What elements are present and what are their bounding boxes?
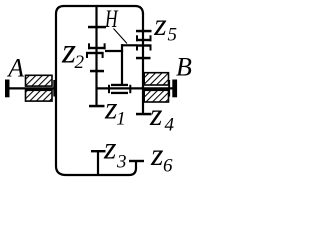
svg-text:z: z	[149, 96, 163, 132]
svg-text:5: 5	[168, 25, 178, 46]
svg-text:1: 1	[116, 109, 126, 130]
svg-text:B: B	[176, 53, 192, 82]
svg-text:z: z	[153, 6, 167, 42]
svg-text:H: H	[104, 5, 119, 33]
svg-text:2: 2	[75, 52, 85, 73]
svg-text:z: z	[103, 130, 117, 166]
svg-text:4: 4	[165, 115, 175, 136]
svg-text:A: A	[6, 53, 24, 82]
svg-text:6: 6	[163, 156, 173, 177]
svg-text:3: 3	[116, 152, 127, 173]
svg-text:z: z	[150, 136, 164, 172]
